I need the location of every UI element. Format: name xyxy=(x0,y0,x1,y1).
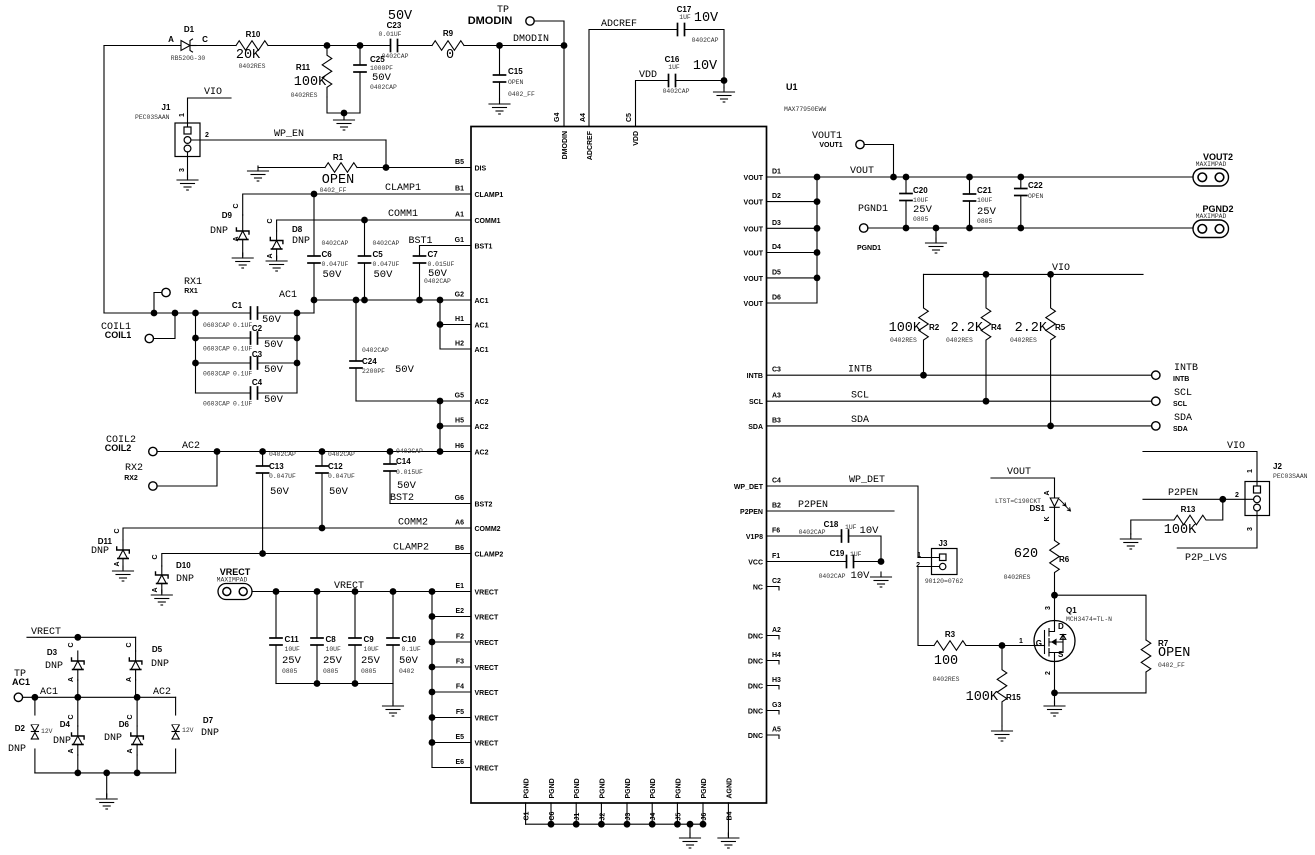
wire VDD net xyxy=(636,81,669,127)
wire R10 to C23 xyxy=(268,45,390,47)
svg-text:MCH3474=TL-N: MCH3474=TL-N xyxy=(1066,616,1112,623)
svg-text:BST2: BST2 xyxy=(390,493,414,504)
svg-text:G2: G2 xyxy=(455,292,464,299)
svg-text:C24: C24 xyxy=(362,357,377,366)
wire pin H5 stub xyxy=(440,425,471,427)
wire AC1/AC2 bridge row xyxy=(23,696,176,698)
diode D10 DNP xyxy=(156,566,169,593)
svg-text:VRECT: VRECT xyxy=(475,766,499,773)
svg-text:0: 0 xyxy=(446,48,454,63)
svg-text:DNP: DNP xyxy=(91,546,109,557)
junction R15 tap xyxy=(999,642,1006,649)
svg-text:CLAMP2: CLAMP2 xyxy=(475,552,504,559)
wire WP_DET net xyxy=(767,486,919,558)
svg-text:DNC: DNC xyxy=(748,709,763,716)
svg-text:SCL: SCL xyxy=(749,399,764,406)
wire J3 pin1 to WP_DET xyxy=(918,557,940,559)
svg-text:0603CAP: 0603CAP xyxy=(203,322,230,329)
svg-text:C4: C4 xyxy=(252,378,263,387)
svg-text:0402CAP: 0402CAP xyxy=(370,84,397,91)
junction VOUT rail D1 xyxy=(814,174,821,181)
svg-text:D9: D9 xyxy=(222,211,233,220)
terminal RX2 xyxy=(149,482,157,490)
svg-text:0805: 0805 xyxy=(361,668,377,675)
svg-text:DMODIN: DMODIN xyxy=(468,15,513,27)
wire INTB xyxy=(767,374,1152,376)
capacitor C20 10UF xyxy=(900,177,912,228)
svg-text:E1: E1 xyxy=(455,583,464,590)
svg-text:C: C xyxy=(114,528,121,533)
ground (C15) xyxy=(489,99,510,114)
svg-text:F3: F3 xyxy=(456,659,464,666)
svg-text:50V: 50V xyxy=(374,269,394,281)
connector J3 pin 1 square xyxy=(940,554,947,561)
svg-text:0603CAP: 0603CAP xyxy=(203,371,230,378)
svg-text:PGND1: PGND1 xyxy=(857,245,881,252)
svg-text:C23: C23 xyxy=(387,21,402,30)
svg-text:AC1: AC1 xyxy=(279,290,297,301)
svg-text:RX2: RX2 xyxy=(125,463,143,474)
svg-text:B5: B5 xyxy=(455,159,464,166)
wire VOUT pin stub y228.3 xyxy=(767,227,818,229)
svg-text:50V: 50V xyxy=(323,269,343,281)
wire pin G5 stub xyxy=(440,400,471,402)
svg-text:0402RES: 0402RES xyxy=(1004,574,1031,581)
wire VRECT pin stub E6 xyxy=(432,767,471,769)
capacitor C16 10UF xyxy=(668,75,676,87)
svg-text:C21: C21 xyxy=(977,186,992,195)
wire C23 to R9 xyxy=(398,45,432,47)
wire CLAMP1 net xyxy=(243,194,471,215)
junction bus J2 xyxy=(598,821,605,828)
capacitor C18 1UF xyxy=(842,530,850,542)
junction RX1 tap xyxy=(151,310,158,317)
svg-text:P2PEN: P2PEN xyxy=(740,509,763,516)
svg-text:0.047UF: 0.047UF xyxy=(322,261,349,268)
wire BST1 net xyxy=(420,246,472,255)
svg-text:A: A xyxy=(126,677,133,682)
svg-text:10UF: 10UF xyxy=(285,646,301,653)
svg-text:0402CAP: 0402CAP xyxy=(322,240,349,247)
junction R11/C25 gnd xyxy=(341,110,348,117)
wire VRECT pin stub y642 xyxy=(432,641,471,643)
svg-text:100K: 100K xyxy=(294,75,327,90)
wire C17 to gnd rail xyxy=(685,30,724,89)
junction Q1 source / R7 xyxy=(1051,690,1058,697)
wire Q1 source lead xyxy=(1054,662,1056,693)
svg-text:D5: D5 xyxy=(772,269,781,276)
svg-text:VIO: VIO xyxy=(204,87,222,98)
connector J2 pin 3 circle xyxy=(1254,504,1261,511)
svg-text:SCL: SCL xyxy=(851,391,869,402)
svg-text:D5: D5 xyxy=(152,645,163,654)
svg-text:C5: C5 xyxy=(626,113,633,122)
svg-text:C19: C19 xyxy=(830,549,845,558)
wire PGND gnd stem xyxy=(935,228,937,241)
svg-text:0402CAP: 0402CAP xyxy=(328,451,355,458)
wire VOUT to DS1 xyxy=(991,477,1055,479)
capacitor C12 0.047UF xyxy=(316,452,328,529)
wire VRECT pin stub y742.5 xyxy=(432,742,471,744)
svg-text:VRECT: VRECT xyxy=(475,716,499,723)
svg-text:DNC: DNC xyxy=(748,659,763,666)
svg-text:DNP: DNP xyxy=(201,728,219,739)
svg-text:S: S xyxy=(1058,650,1064,659)
wire pin B4 stub xyxy=(727,803,729,836)
diode D8 DNP xyxy=(270,231,283,259)
svg-text:SCL: SCL xyxy=(1174,388,1192,399)
svg-text:F1: F1 xyxy=(772,553,780,560)
junction P2PEN/R13 xyxy=(1219,496,1226,503)
svg-text:C: C xyxy=(127,714,134,719)
svg-text:0402CAP: 0402CAP xyxy=(373,240,400,247)
svg-text:A6: A6 xyxy=(455,520,464,527)
ground (C18/C19) xyxy=(871,572,892,587)
svg-text:0402CAP: 0402CAP xyxy=(819,573,846,580)
svg-text:VRECT: VRECT xyxy=(475,615,499,622)
svg-text:2: 2 xyxy=(1235,492,1239,499)
svg-text:C6: C6 xyxy=(322,250,333,259)
svg-text:VRECT: VRECT xyxy=(475,665,499,672)
svg-text:C22: C22 xyxy=(1028,181,1043,190)
wire G2-H1-H2 rail xyxy=(440,300,471,349)
svg-text:0.047UF: 0.047UF xyxy=(373,261,400,268)
junction COMM2/C12 xyxy=(319,525,326,532)
wire left loop vertical xyxy=(103,46,105,314)
svg-text:C13: C13 xyxy=(269,462,284,471)
wire D3 to AC1 xyxy=(77,680,79,697)
svg-text:PEC03SAAN: PEC03SAAN xyxy=(135,114,170,121)
terminal INTB xyxy=(1152,371,1160,379)
junction COMM1/C5 xyxy=(361,217,368,224)
svg-text:0.1UF: 0.1UF xyxy=(233,401,252,408)
svg-text:AC1: AC1 xyxy=(475,323,489,330)
capacitor C7 0.015UF xyxy=(414,254,426,300)
junction C22/VOUT xyxy=(1017,174,1024,181)
svg-text:J3: J3 xyxy=(625,813,632,821)
svg-text:C1: C1 xyxy=(232,301,243,310)
wire VIO rail xyxy=(924,273,1144,275)
svg-text:MAXIMPAD: MAXIMPAD xyxy=(217,577,248,584)
resistor R13 100K xyxy=(1173,515,1207,525)
svg-text:VOUT: VOUT xyxy=(744,276,764,283)
wire VCC to C19 xyxy=(767,561,847,563)
wire D6 col xyxy=(136,697,138,726)
svg-text:B3: B3 xyxy=(772,417,781,424)
diode D2 DNP 12V xyxy=(31,725,38,739)
svg-text:A5: A5 xyxy=(772,727,781,734)
svg-text:PGND: PGND xyxy=(625,778,632,798)
junction bank C8 xyxy=(314,680,321,687)
capacitor C17 1UF xyxy=(677,24,685,36)
svg-text:G5: G5 xyxy=(455,393,464,400)
svg-text:H4: H4 xyxy=(772,652,781,659)
svg-text:AC1: AC1 xyxy=(40,687,58,698)
svg-text:C12: C12 xyxy=(328,462,343,471)
wire P2PEN to J2 pin2 xyxy=(1143,498,1254,500)
wire D1 cathode to R10 xyxy=(196,45,236,47)
svg-text:0402RES: 0402RES xyxy=(933,676,960,683)
resistor R2 100K xyxy=(919,274,929,375)
svg-text:R15: R15 xyxy=(1006,693,1021,702)
svg-text:0.1UF: 0.1UF xyxy=(233,322,252,329)
svg-text:C: C xyxy=(267,218,274,223)
wire D2 to rail xyxy=(34,749,36,773)
svg-text:10UF: 10UF xyxy=(364,646,380,653)
capacitor C3 0.1UF xyxy=(196,357,298,369)
wire Q1 drain lead xyxy=(1054,595,1056,622)
svg-text:620: 620 xyxy=(1014,547,1038,562)
ground (PGND bus) xyxy=(680,833,701,848)
svg-text:DMODIN: DMODIN xyxy=(562,131,569,159)
capacitor C2 0.1UF xyxy=(196,332,298,344)
svg-text:10UF: 10UF xyxy=(977,197,993,204)
svg-text:COMM1: COMM1 xyxy=(475,218,501,225)
svg-text:E2: E2 xyxy=(455,608,464,615)
wire D2 col xyxy=(34,697,36,715)
svg-text:D1: D1 xyxy=(184,25,195,34)
junction cap-bank left rail xyxy=(192,310,199,317)
junction rail gnd xyxy=(103,770,110,777)
junction C12/AC2 xyxy=(319,448,326,455)
diode D5 DNP xyxy=(129,651,142,680)
wire cap-bank right rail xyxy=(296,313,298,393)
connector J2 pin 1 square xyxy=(1254,486,1261,493)
ground (R11/C25) xyxy=(334,115,355,130)
svg-text:P2P_LVS: P2P_LVS xyxy=(1185,553,1227,564)
svg-text:0402RES: 0402RES xyxy=(239,63,266,70)
connector J3 pin 2 circle xyxy=(940,563,946,569)
junction DMODIN TP tap xyxy=(561,42,568,49)
svg-text:0402CAP: 0402CAP xyxy=(396,448,423,455)
wire VRECT pin stub y667 xyxy=(432,666,471,668)
ground (D8) xyxy=(266,256,287,271)
svg-text:C7: C7 xyxy=(428,250,439,259)
svg-text:C16: C16 xyxy=(665,55,680,64)
svg-text:0.047UF: 0.047UF xyxy=(269,473,296,480)
svg-text:0402_FF: 0402_FF xyxy=(1158,662,1185,669)
ground (AGND B4) xyxy=(718,833,739,848)
wire VOUT main xyxy=(767,176,1194,178)
wire DNC stub y735 xyxy=(767,735,780,739)
junction R11 tap xyxy=(324,42,331,49)
svg-text:C15: C15 xyxy=(508,67,523,76)
junction VOUT rail y228.3 xyxy=(814,225,821,232)
wire AC2 main xyxy=(157,451,471,453)
junction bus J4 xyxy=(649,821,656,828)
wire VOUT pin stub D6 xyxy=(767,177,818,303)
svg-text:D: D xyxy=(1058,622,1064,631)
terminal COIL1 xyxy=(145,334,153,342)
wire top net from left loop to D1 anode xyxy=(104,45,181,47)
capacitor C21 10UF xyxy=(964,177,976,228)
capacitor C19 1UF xyxy=(847,556,855,568)
junction AC1/H-rail xyxy=(437,297,444,304)
wire VOUT pin stub y277.9 xyxy=(767,277,818,279)
svg-text:G3: G3 xyxy=(772,702,781,709)
junction VOUT1/VOUT xyxy=(890,174,897,181)
svg-text:OPEN: OPEN xyxy=(322,173,354,188)
diode D9 DNP xyxy=(236,215,249,256)
wire pin J3 stub xyxy=(626,803,628,824)
svg-text:C5: C5 xyxy=(373,250,384,259)
svg-text:R1: R1 xyxy=(333,153,344,162)
svg-text:A: A xyxy=(1044,490,1051,495)
wire VRECT main xyxy=(252,591,471,593)
svg-text:VOUT1: VOUT1 xyxy=(812,131,842,142)
svg-text:INTB: INTB xyxy=(747,373,763,380)
wire CLAMP2 net xyxy=(162,554,471,567)
junction rail D6 xyxy=(134,770,141,777)
svg-text:DNP: DNP xyxy=(45,661,63,672)
svg-text:0603CAP: 0603CAP xyxy=(203,401,230,408)
junction bus J3 xyxy=(624,821,631,828)
junction D3/D4 xyxy=(74,694,81,701)
connector J2 PEC03SAAN body xyxy=(1245,482,1270,516)
svg-text:C: C xyxy=(68,642,75,647)
capacitor C23 0.01UF xyxy=(390,40,398,52)
svg-text:R5: R5 xyxy=(1055,323,1066,332)
terminal SCL xyxy=(1152,397,1160,405)
svg-text:D11: D11 xyxy=(98,537,113,546)
junction H1 rail xyxy=(437,321,444,328)
svg-text:SDA: SDA xyxy=(748,424,763,431)
capacitor C9 10UF xyxy=(349,592,361,684)
junction C20/VOUT xyxy=(903,174,910,181)
svg-text:C9: C9 xyxy=(364,635,375,644)
svg-text:0.047UF: 0.047UF xyxy=(328,473,355,480)
capacitor C5 0.047UF xyxy=(359,220,371,300)
wire pin J6 stub xyxy=(702,803,704,824)
junction AC2/H-rail xyxy=(437,448,444,455)
junction PGND gnd xyxy=(933,225,940,232)
junction VRECT rail y616.5 xyxy=(429,613,436,620)
svg-text:R2: R2 xyxy=(929,323,940,332)
wire COMM1 net xyxy=(277,220,471,231)
svg-text:VRECT: VRECT xyxy=(31,627,61,638)
junction WP_EN/DIS xyxy=(383,164,390,171)
junction AC1/C7 xyxy=(416,297,423,304)
svg-text:SDA: SDA xyxy=(1173,426,1188,433)
svg-text:C20: C20 xyxy=(913,186,928,195)
capacitor C14 0.015UF xyxy=(384,452,396,504)
wire VIO to J2 pin1 xyxy=(1143,452,1257,487)
svg-text:VDD: VDD xyxy=(639,70,657,81)
svg-text:INTB: INTB xyxy=(1173,376,1189,383)
svg-text:100K: 100K xyxy=(1164,523,1197,538)
svg-text:PGND: PGND xyxy=(675,778,682,798)
svg-text:BST1: BST1 xyxy=(475,244,493,251)
wire VOUT1 to VOUT xyxy=(864,145,893,178)
wire R9 to DMODIN node xyxy=(464,45,564,47)
svg-text:DNC: DNC xyxy=(748,733,763,740)
wire bank gnd stem xyxy=(392,684,394,705)
junction COIL1 tap xyxy=(172,310,179,317)
svg-text:RX1: RX1 xyxy=(184,288,198,295)
svg-text:A: A xyxy=(168,35,174,44)
junction VOUT rail y252.5 xyxy=(814,249,821,256)
svg-text:DNP: DNP xyxy=(151,659,169,670)
svg-text:DNP: DNP xyxy=(8,744,26,755)
wire D4 to rail xyxy=(77,755,79,773)
wire cap bank bottom rail xyxy=(276,683,393,685)
connector J1 pin 3 circle xyxy=(184,145,191,152)
junction VRECT rail y692 xyxy=(429,689,436,696)
svg-text:C: C xyxy=(233,203,240,208)
svg-text:12V: 12V xyxy=(41,728,53,735)
svg-text:PGND: PGND xyxy=(599,778,606,798)
svg-text:CLAMP2: CLAMP2 xyxy=(393,543,429,554)
junction VRECT rail y667 xyxy=(429,664,436,671)
svg-text:AC2: AC2 xyxy=(475,450,489,457)
resistor R9 xyxy=(432,41,464,51)
svg-text:AC2: AC2 xyxy=(475,399,489,406)
junction VIO/R5 xyxy=(1047,271,1054,278)
svg-text:100K: 100K xyxy=(889,321,922,336)
svg-text:C25: C25 xyxy=(370,55,385,64)
svg-text:J2: J2 xyxy=(599,813,606,821)
svg-text:BST2: BST2 xyxy=(475,502,493,509)
svg-text:J5: J5 xyxy=(675,813,682,821)
junction bank C9 xyxy=(352,680,359,687)
svg-text:SDA: SDA xyxy=(1174,413,1192,424)
svg-text:1UF: 1UF xyxy=(845,524,857,531)
svg-text:J1: J1 xyxy=(574,813,581,821)
wire PGND bus xyxy=(526,823,703,825)
wire D7 col xyxy=(175,697,177,715)
wire RX1 to row xyxy=(154,293,162,314)
junction C21/VOUT xyxy=(966,174,973,181)
svg-text:CLAMP1: CLAMP1 xyxy=(385,183,421,194)
svg-text:20K: 20K xyxy=(236,48,261,63)
svg-text:MAXIMPAD: MAXIMPAD xyxy=(1196,161,1227,168)
svg-text:A: A xyxy=(267,253,274,258)
svg-text:D6: D6 xyxy=(772,295,781,302)
svg-text:A: A xyxy=(114,561,121,566)
wire D4 col xyxy=(77,697,79,726)
svg-text:VOUT: VOUT xyxy=(744,251,764,258)
svg-text:G4: G4 xyxy=(554,113,561,122)
wire gnd to R1 xyxy=(258,167,325,169)
svg-text:50V: 50V xyxy=(270,486,290,498)
svg-text:U1: U1 xyxy=(786,82,798,92)
junction cap-bank right rail xyxy=(294,310,301,317)
terminal SDA xyxy=(1152,422,1160,430)
junction C3 left xyxy=(192,360,199,367)
wire AC1 to C1 row xyxy=(313,300,315,313)
svg-text:R10: R10 xyxy=(246,30,261,39)
svg-text:A: A xyxy=(68,677,75,682)
svg-text:SCL: SCL xyxy=(1173,401,1188,408)
svg-text:B2: B2 xyxy=(772,503,781,510)
svg-text:PGND: PGND xyxy=(549,778,556,798)
ground (C16/C17) xyxy=(714,87,735,102)
svg-text:DNP: DNP xyxy=(53,736,71,747)
svg-text:R13: R13 xyxy=(1181,505,1196,514)
svg-text:VOUT: VOUT xyxy=(744,175,764,182)
svg-text:AC2: AC2 xyxy=(153,687,171,698)
wire C1 row xyxy=(104,312,251,314)
resistor R11 xyxy=(322,46,332,98)
diode D3 DNP xyxy=(72,651,85,680)
ground (R1 left) xyxy=(248,166,269,181)
svg-text:A: A xyxy=(233,236,240,241)
svg-text:B4: B4 xyxy=(726,811,733,820)
svg-text:NC: NC xyxy=(753,585,763,592)
svg-text:C1: C1 xyxy=(524,811,531,820)
capacitor C13 0.047UF xyxy=(257,452,269,554)
svg-text:0.015UF: 0.015UF xyxy=(428,261,455,268)
